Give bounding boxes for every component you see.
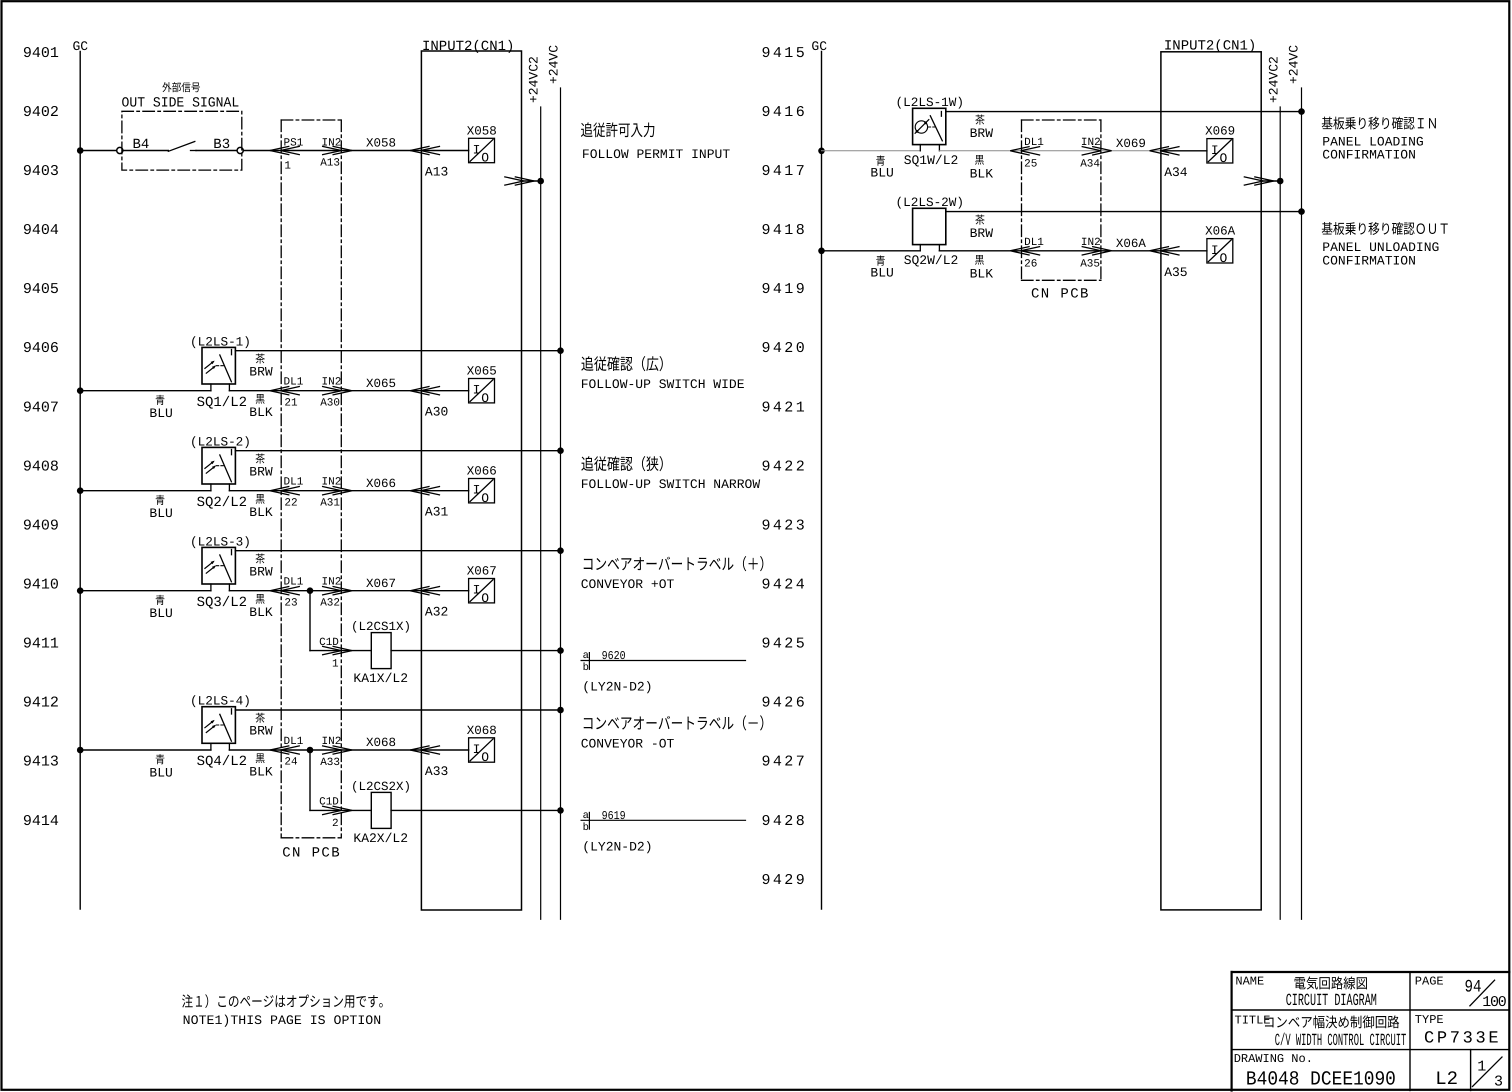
connector C1D pin 1 [322,646,352,655]
svg-text:BRW: BRW [249,364,273,379]
I/O point X065 [467,365,497,406]
svg-text:9418: 9418 [762,222,808,239]
label 黒 [975,155,984,165]
junction SQ3 wire / C1D branch [307,587,314,594]
svg-text:b: b [583,822,589,834]
wire SQ1W/L2 to INPUT2 [939,150,1161,152]
svg-text:23: 23 [284,597,297,609]
svg-text:(L2LS-2): (L2LS-2) [190,434,251,449]
brown wire SQ2/L2 to +24VC [235,450,560,452]
brown wire SQ2W/L2 to +24VC [946,211,1302,213]
svg-text:DL1: DL1 [284,477,304,489]
svg-text:BLK: BLK [970,266,994,281]
junction +24VC2 feed [537,178,544,185]
svg-text:(L2LS-1): (L2LS-1) [190,334,251,349]
svg-text:I: I [473,583,481,598]
svg-text:+24VC2: +24VC2 [527,56,542,103]
wire INPUT2 to I/O X069 [1161,150,1207,152]
junction KA2X / +24VC [557,807,564,814]
svg-text:A31: A31 [425,505,449,520]
svg-text:O: O [481,151,489,166]
svg-text:9420: 9420 [762,340,808,357]
brown wire SQ4/L2 to +24VC [235,709,560,711]
wire SQ2W/L2 to INPUT2 [939,250,1161,252]
svg-text:L2: L2 [1435,1068,1458,1090]
svg-text:A33: A33 [425,764,448,779]
svg-text:CONVEYOR +OT: CONVEYOR +OT [581,577,675,592]
svg-text:O: O [1220,151,1228,166]
svg-text:BRW: BRW [970,226,994,241]
svg-text:OUT SIDE SIGNAL: OUT SIDE SIGNAL [122,95,240,111]
svg-text:NAME: NAME [1235,975,1264,989]
label 追従許可入力 [581,122,654,137]
svg-text:A30: A30 [320,398,340,410]
+24VC2 bus (right) [1279,107,1281,919]
svg-text:9405: 9405 [23,281,59,298]
svg-text:9410: 9410 [23,577,59,594]
label 茶 [256,713,265,723]
svg-text:O: O [481,750,489,765]
svg-text:A33: A33 [320,757,340,769]
svg-text:9419: 9419 [762,281,808,298]
svg-text:b: b [583,662,589,674]
junction brown / +24VC [1298,208,1305,215]
limit switch SQ2W/L2 (L2LS-2W) [913,208,946,251]
svg-text:BLU: BLU [870,266,893,281]
svg-text:9619: 9619 [602,809,626,823]
svg-text:X066: X066 [366,477,396,491]
label コンベアオーバートラベル（－） [584,715,764,730]
svg-text:A32: A32 [425,605,448,620]
svg-text:A13: A13 [320,158,340,170]
svg-text:(L2LS-3): (L2LS-3) [190,534,251,549]
connector DL1 pin 24 [270,746,300,755]
label 黒 [256,394,265,404]
svg-text:CN PCB: CN PCB [1031,287,1090,303]
I/O point X06A [1205,225,1236,266]
svg-text:DL1: DL1 [284,377,304,389]
svg-text:SQ1W/L2: SQ1W/L2 [904,153,959,168]
svg-text:I: I [473,483,481,498]
label 基板乗り移り確認ＯＵＴ [1322,222,1448,235]
wire SQ3/L2 to I/O X067 [229,590,468,592]
wire GC to SQ4/L2 [80,749,211,751]
wire GC to SQ1W/L2 [822,150,921,152]
wire SQ1/L2 to I/O X065 [229,390,468,392]
svg-text:B4048 DCEE1090: B4048 DCEE1090 [1246,1068,1396,1091]
svg-text:O: O [481,591,489,606]
connector IN2 pin A34 [1082,147,1112,156]
svg-text:X065: X065 [366,377,396,391]
label 電気回路線図 [1295,977,1367,990]
svg-text:X068: X068 [467,724,497,738]
svg-text:9620: 9620 [602,649,626,663]
limit switch SQ3/L2 (L2LS-3) [202,547,235,590]
connector INPUT2 pin A33 [410,746,440,755]
connector DL1 pin 26 [1010,247,1040,256]
svg-text:1: 1 [332,658,339,670]
svg-text:2: 2 [332,818,339,830]
svg-text:X06A: X06A [1205,225,1236,239]
svg-text:9417: 9417 [762,163,808,180]
connector housing INPUT2(CN1) right [1161,52,1261,910]
svg-text:BLU: BLU [149,606,172,621]
label 青 [876,256,885,266]
svg-text:a: a [583,650,589,662]
relay coil KA2X/L2 (L2CS2X) [371,792,391,828]
svg-text:INPUT2(CN1): INPUT2(CN1) [422,39,514,55]
relay coil KA1X/L2 (L2CS1X) [371,633,391,669]
svg-text:BLU: BLU [149,765,172,780]
wire GC to terminal B4 [80,150,117,152]
svg-text:SQ2/L2: SQ2/L2 [197,495,247,511]
I/O point X058 [467,124,497,165]
svg-text:GC: GC [811,39,827,54]
svg-text:A34: A34 [1080,159,1100,171]
label 青 [156,595,165,605]
svg-text:IN2: IN2 [1081,237,1101,249]
wire switch to terminal B3 [196,150,237,152]
wire GC to SQ2W/L2 [822,250,921,252]
svg-text:BLK: BLK [249,765,273,780]
label 青 [156,495,165,505]
svg-text:I: I [473,143,481,158]
svg-text:9428: 9428 [762,813,808,830]
svg-text:DL1: DL1 [284,736,304,748]
svg-text:+24VC: +24VC [1287,45,1302,84]
svg-text:BRW: BRW [249,464,273,479]
svg-text:I: I [1211,143,1219,158]
svg-text:1: 1 [1477,1058,1486,1075]
svg-text:O: O [481,491,489,506]
GC bus (right) [821,52,823,910]
svg-text:BLU: BLU [149,506,172,521]
switch contact (outside signal) [168,142,196,152]
label 茶 [256,353,265,363]
svg-text:(L2LS-4): (L2LS-4) [190,694,251,709]
svg-text:9423: 9423 [762,518,808,535]
svg-text:9425: 9425 [762,636,808,653]
fraction slash 94/100 [1470,980,1495,1006]
junction GC / follow-permit wire [77,147,84,154]
svg-text:9413: 9413 [23,754,59,771]
svg-text:CONFIRMATION: CONFIRMATION [1322,253,1416,268]
svg-text:DL1: DL1 [1024,237,1044,249]
svg-text:24: 24 [284,757,298,769]
svg-text:SQ4/L2: SQ4/L2 [197,754,247,770]
svg-text:NOTE1)THIS PAGE IS OPTION: NOTE1)THIS PAGE IS OPTION [183,1013,382,1028]
svg-text:PAGE: PAGE [1415,975,1444,989]
svg-text:X065: X065 [467,365,497,379]
junction brown / +24VC [557,347,564,354]
junction GC / SQ2W/L2 wire [818,248,825,255]
svg-text:BLK: BLK [249,605,273,620]
svg-text:CN PCB: CN PCB [282,846,341,862]
junction GC / SQ1/L2 wire [77,387,84,394]
svg-text:9421: 9421 [762,399,808,416]
wire B4 to switch [123,150,168,152]
connector DL1 pin 23 [270,586,300,595]
GC bus (left) [79,52,81,910]
svg-text:(L2LS-2W): (L2LS-2W) [896,195,965,210]
svg-text:+24VC2: +24VC2 [1267,56,1282,103]
svg-text:9424: 9424 [762,577,808,594]
svg-text:9404: 9404 [23,222,59,239]
I/O point X067 [467,565,497,606]
wire branch down to C1D-2 [309,750,311,810]
svg-text:26: 26 [1024,259,1037,271]
limit switch SQ1W/L2 (L2LS-1W) [913,108,946,151]
svg-text:O: O [481,391,489,406]
connector housing INPUT2(CN1) left [421,51,521,910]
svg-text:(L2CS1X): (L2CS1X) [351,620,411,634]
svg-text:9416: 9416 [762,104,808,121]
svg-text:A32: A32 [320,598,340,610]
wire B3 to I/O X058 [243,150,468,152]
svg-text:X058: X058 [467,124,497,138]
connector INPUT2 pin A32 [410,586,440,595]
label 青 [876,156,885,166]
svg-text:TYPE: TYPE [1415,1013,1444,1027]
svg-text:9401: 9401 [23,45,59,62]
connector IN2 pin A31 [322,486,352,495]
wire SQ2/L2 to I/O X066 [229,490,468,492]
svg-text:BLU: BLU [149,406,172,421]
+24VC2 bus (left) [540,107,542,919]
I/O point X069 [1205,125,1235,166]
svg-text:IN2: IN2 [322,477,342,489]
label 茶 [256,453,265,463]
svg-text:9414: 9414 [23,813,59,830]
label 青 [156,754,165,764]
wire branch down to C1D-1 [309,591,311,651]
svg-text:CONVEYOR -OT: CONVEYOR -OT [581,737,675,752]
connector DL1 pin 21 [270,386,300,395]
wire relay KA1X to +24VC [391,650,560,652]
svg-text:X06A: X06A [1116,237,1147,251]
terminal B4 [117,147,123,153]
svg-text:X069: X069 [1116,137,1146,151]
brown wire SQ1W/L2 to +24VC [946,111,1302,113]
limit switch SQ4/L2 (L2LS-4) [202,707,235,750]
svg-text:CIRCUIT DIAGRAM: CIRCUIT DIAGRAM [1286,992,1377,1011]
off-page link 9620 [581,649,745,674]
label 黒 [256,594,265,604]
svg-text:25: 25 [1024,159,1037,171]
label コンベアオーバートラベル（＋） [584,556,764,571]
enclosure OUT SIDE SIGNAL [122,111,242,170]
wire SQ4/L2 to I/O X068 [229,749,468,751]
connector DL1 pin 22 [270,486,300,495]
svg-text:9411: 9411 [23,636,59,653]
connector PS1 pin 1 [270,146,300,155]
svg-text:IN2: IN2 [322,577,342,589]
junction GC / SQ4/L2 wire [77,747,84,754]
brown wire SQ3/L2 to +24VC [235,550,560,552]
svg-text:FOLLOW-UP SWITCH NARROW: FOLLOW-UP SWITCH NARROW [581,477,761,492]
wire GC to SQ1/L2 [80,390,211,392]
wire C1D-1 to relay KA1X [310,650,371,652]
svg-text:a: a [583,810,589,822]
svg-text:INPUT2(CN1): INPUT2(CN1) [1164,39,1256,55]
wire INPUT2 common to +24VC2 (right) [1261,180,1280,182]
svg-text:I: I [1211,243,1219,258]
svg-text:IN2: IN2 [322,377,342,389]
terminal B3 [237,147,243,153]
connector arrow to +24VC2 [504,177,534,186]
svg-text:BLK: BLK [249,405,273,420]
svg-text:O: O [1220,251,1228,266]
connector IN2 pin A30 [322,386,352,395]
junction brown / +24VC [557,547,564,554]
wire GC to SQ3/L2 [80,590,211,592]
svg-text:9402: 9402 [23,104,59,121]
wire GC to SQ2/L2 [80,490,211,492]
junction brown / +24VC [557,447,564,454]
enclosure CN PCB right (DL1/IN2 boundary) [1022,120,1101,280]
label 青 [156,395,165,405]
connector INPUT2 pin A34 [1150,147,1180,156]
connector INPUT2 pin A30 [410,386,440,395]
I/O point X068 [467,724,497,765]
svg-text:IN2: IN2 [1081,137,1101,149]
svg-text:+24VC: +24VC [547,45,562,84]
svg-text:A35: A35 [1164,265,1187,280]
connector IN2 pin A33 [322,746,352,755]
svg-text:9422: 9422 [762,458,808,475]
svg-text:9408: 9408 [23,458,59,475]
svg-text:FOLLOW-UP SWITCH WIDE: FOLLOW-UP SWITCH WIDE [581,377,745,392]
svg-text:9426: 9426 [762,695,808,712]
svg-text:X069: X069 [1205,125,1235,139]
label 基板乗り移り確認ＩＮ [1322,117,1436,130]
svg-text:DRAWING No.: DRAWING No. [1234,1052,1313,1066]
svg-text:X058: X058 [366,137,396,151]
label 茶 [256,553,265,563]
svg-text:(LY2N-D2): (LY2N-D2) [582,839,652,854]
brown wire SQ1/L2 to +24VC [235,350,560,352]
wire INPUT2 common to +24VC2 [522,180,541,182]
svg-text:BLK: BLK [249,505,273,520]
svg-text:9427: 9427 [762,754,808,771]
svg-text:X067: X067 [467,565,497,579]
label 茶 [975,215,984,225]
wire INPUT2 to I/O X06A [1161,250,1207,252]
svg-text:X068: X068 [366,736,396,750]
svg-text:9406: 9406 [23,340,59,357]
svg-text:BRW: BRW [249,724,273,739]
label 黒 [256,494,265,504]
label 追従確認（広） [581,356,662,371]
+24VC bus (left) [560,88,562,919]
fraction slash 1/3 [1473,1057,1503,1087]
wire C1D-2 to relay KA2X [310,809,371,811]
junction GC / SQ1W/L2 wire [818,148,825,155]
svg-text:C/V WIDTH CONTROL CIRCUIT: C/V WIDTH CONTROL CIRCUIT [1275,1032,1407,1051]
svg-text:BLK: BLK [970,166,994,181]
label 茶 [975,115,984,125]
connector INPUT2 pin A13 [410,146,440,155]
svg-text:CONFIRMATION: CONFIRMATION [1322,148,1416,163]
label 外部信号 [162,82,200,92]
svg-text:9429: 9429 [762,872,808,889]
label コンベア幅決め制御回路 [1265,1015,1399,1028]
svg-text:3: 3 [1494,1073,1503,1090]
svg-text:SQ2W/L2: SQ2W/L2 [904,253,959,268]
svg-text:100: 100 [1482,994,1507,1011]
svg-text:21: 21 [284,397,298,409]
+24VC bus (right) [1301,88,1303,919]
svg-text:C1D: C1D [319,797,339,809]
svg-text:22: 22 [284,497,297,509]
junction brown / +24VC [557,707,564,714]
svg-text:X066: X066 [467,465,497,479]
svg-text:A31: A31 [320,498,340,510]
svg-text:SQ3/L2: SQ3/L2 [197,595,247,611]
label 追従確認（狭） [581,456,662,471]
junction GC / SQ2/L2 wire [77,487,84,494]
svg-text:9412: 9412 [23,695,59,712]
enclosure CN PCB left (DL1/IN2 boundary) [281,120,341,838]
svg-text:IN2: IN2 [322,138,342,150]
svg-text:A34: A34 [1164,165,1188,180]
svg-text:94: 94 [1465,978,1482,998]
I/O point X066 [467,465,497,506]
title block frame [1232,972,1510,1091]
svg-text:KA1X/L2: KA1X/L2 [353,671,408,686]
connector C1D pin 2 [322,806,352,815]
svg-text:SQ1/L2: SQ1/L2 [197,395,247,411]
junction SQ4 wire / C1D branch [307,747,314,754]
label 黒 [256,753,265,763]
svg-text:BRW: BRW [970,126,994,141]
svg-text:9415: 9415 [762,45,808,62]
svg-text:C1D: C1D [319,637,339,649]
svg-text:1: 1 [284,161,291,173]
junction brown / +24VC [1298,108,1305,115]
connector INPUT2 pin A35 [1150,247,1180,256]
svg-text:IN2: IN2 [322,736,342,748]
connector IN2 pin A35 [1082,247,1112,256]
svg-text:(L2CS2X): (L2CS2X) [351,780,411,794]
svg-text:KA2X/L2: KA2X/L2 [353,831,408,846]
svg-text:A13: A13 [425,165,448,180]
junction GC / SQ3/L2 wire [77,587,84,594]
limit switch SQ2/L2 (L2LS-2) [202,447,235,490]
svg-text:A30: A30 [425,405,448,420]
svg-text:X067: X067 [366,577,396,591]
off-page link 9619 [581,809,745,834]
junction +24VC2 feed (right) [1277,178,1284,185]
limit switch SQ1/L2 (L2LS-1) [202,347,235,390]
connector arrow to +24VC2 (right) [1244,177,1274,186]
svg-text:(L2LS-1W): (L2LS-1W) [896,95,965,110]
label 注１）このページはオプション用です。 [182,994,383,1008]
svg-text:9409: 9409 [23,518,59,535]
junction KA1X / +24VC [557,647,564,654]
svg-text:I: I [473,383,481,398]
svg-text:BLU: BLU [870,166,893,181]
svg-text:I: I [473,742,481,757]
svg-text:FOLLOW PERMIT INPUT: FOLLOW PERMIT INPUT [582,147,730,162]
connector DL1 pin 25 [1010,147,1040,156]
label 黒 [975,255,984,265]
connector IN2 pin A32 [322,586,352,595]
svg-text:DL1: DL1 [284,577,304,589]
svg-text:BRW: BRW [249,564,273,579]
svg-text:9403: 9403 [23,163,59,180]
svg-text:DL1: DL1 [1024,137,1044,149]
